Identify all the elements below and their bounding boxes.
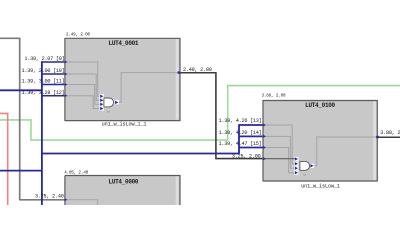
svg-text:4.05, 2.40: 4.05, 2.40	[64, 172, 89, 176]
svg-text:2.49, 2.00: 2.49, 2.00	[183, 67, 212, 73]
svg-text:1.39, 3.00 [11]: 1.39, 3.00 [11]	[22, 79, 65, 85]
svg-text:un1_w_isLow_1: un1_w_isLow_1	[301, 184, 340, 190]
svg-text:3.88, 2.00: 3.88, 2.00	[262, 94, 287, 98]
svg-text:3.25, 2.00: 3.25, 2.00	[232, 154, 261, 160]
svg-text:LUT4_0100: LUT4_0100	[305, 102, 335, 109]
svg-text:3.88, 2.00: 3.88, 2.00	[380, 130, 400, 136]
svg-text:1.39, 4.47 [15]: 1.39, 4.47 [15]	[219, 141, 262, 147]
svg-text:1.39, 2.00 [10]: 1.39, 2.00 [10]	[22, 68, 65, 74]
svg-text:1.39, 4.20 [14]: 1.39, 4.20 [14]	[219, 130, 262, 136]
svg-text:3.75, 2.40: 3.75, 2.40	[35, 194, 64, 200]
svg-text:LUT4_0000: LUT4_0000	[109, 178, 139, 185]
svg-text:1.39, 4.26 [13]: 1.39, 4.26 [13]	[219, 118, 262, 124]
svg-text:LUT4_0001: LUT4_0001	[109, 40, 139, 47]
svg-text:1.39, 3.28 [12]: 1.39, 3.28 [12]	[22, 90, 65, 96]
svg-text:un1_w_isLow_1_1: un1_w_isLow_1_1	[102, 122, 147, 128]
svg-text:2.49, 2.00: 2.49, 2.00	[66, 34, 91, 38]
svg-text:1.39, 2.07 [9]: 1.39, 2.07 [9]	[24, 56, 64, 62]
